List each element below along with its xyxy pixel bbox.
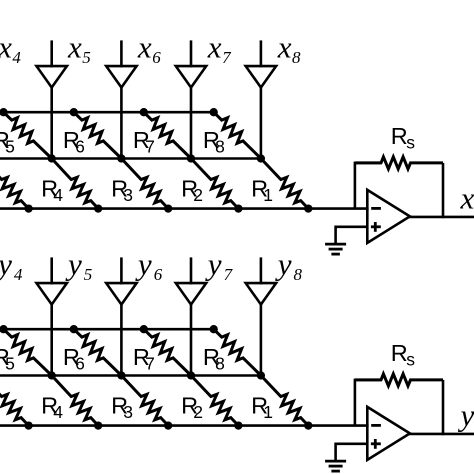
buffer amplifier for input x7 bbox=[176, 66, 206, 87]
svg-text:s: s bbox=[406, 350, 415, 370]
wire: upper bus (x-section) bbox=[0, 111, 214, 114]
svg-text:x: x bbox=[207, 30, 222, 65]
resistor R2 (x-section) bbox=[191, 159, 238, 209]
wire: buffer x5 output down to middle bus bbox=[50, 88, 53, 159]
buffer amplifier for input y8 bbox=[246, 283, 276, 304]
wire: buffer y5 output down to middle bus bbox=[50, 305, 53, 376]
wire: buffer y8 output down to middle bus bbox=[260, 305, 263, 376]
svg-text:2: 2 bbox=[193, 185, 203, 205]
svg-text:y: y bbox=[205, 247, 222, 282]
op-amp U-x minus sign bbox=[371, 207, 381, 210]
resistor (partially cropped at left edge, y-section) bbox=[0, 376, 29, 426]
wire: middle bus (x-section buffer output rail) bbox=[0, 157, 261, 160]
svg-text:7: 7 bbox=[224, 265, 234, 284]
svg-text:y: y bbox=[458, 397, 474, 432]
wire: middle bus (y-section buffer output rail) bbox=[0, 374, 261, 377]
svg-text:3: 3 bbox=[123, 402, 133, 422]
node: buffer y5 output junction bbox=[48, 371, 56, 379]
node: buffer y6 output junction bbox=[117, 371, 125, 379]
wire: input lead above buffer y5 bbox=[50, 257, 53, 284]
svg-text:x: x bbox=[67, 30, 82, 65]
ground symbol at U-y non-inverting input bbox=[325, 460, 346, 463]
buffer amplifier for input x6 bbox=[106, 66, 136, 87]
svg-text:7: 7 bbox=[145, 354, 155, 374]
svg-text:4: 4 bbox=[12, 48, 21, 67]
wire: input lead above buffer x6 bbox=[120, 40, 123, 67]
svg-text:5: 5 bbox=[82, 48, 91, 67]
svg-text:8: 8 bbox=[292, 48, 301, 67]
svg-text:1: 1 bbox=[263, 185, 273, 205]
node: buffer y7 output junction bbox=[187, 371, 195, 379]
svg-text:1: 1 bbox=[263, 402, 273, 422]
op-amp U-x bbox=[367, 190, 410, 243]
buffer amplifier for input y5 bbox=[37, 283, 67, 304]
wire: output of U-y bbox=[409, 433, 474, 436]
node: upper bus tap 3 (y-section) bbox=[140, 325, 148, 333]
resistor R8 (x-section) bbox=[214, 112, 261, 158]
ground symbol at U-x non-inverting input bbox=[325, 243, 346, 246]
resistor R6 (y-section) bbox=[74, 329, 122, 375]
node: buffer x5 output junction bbox=[48, 154, 56, 162]
wire: buffer x6 output down to middle bus bbox=[120, 88, 123, 159]
node: lower bus tap 2 (x-section) bbox=[94, 204, 102, 212]
wire: non-inverting input of U-x bbox=[336, 227, 368, 244]
buffer amplifier for input x5 bbox=[37, 66, 67, 87]
svg-text:x: x bbox=[137, 30, 152, 65]
resistor Rs (y-section feedback) bbox=[355, 374, 443, 386]
wire: lower bus to op-amp inverting input (y-section) bbox=[0, 424, 369, 427]
svg-text:y: y bbox=[0, 247, 12, 282]
node: lower bus tap 4 (y-section) bbox=[234, 421, 242, 429]
wire: feedback loop of U-x bbox=[355, 163, 381, 209]
node: upper bus tap 1 (y-section) bbox=[0, 325, 8, 333]
buffer amplifier for input y7 bbox=[176, 283, 206, 304]
svg-text:2: 2 bbox=[193, 402, 203, 422]
wire: feedback right leg down to output of U-y bbox=[442, 380, 445, 435]
node: upper bus tap 3 (x-section) bbox=[140, 108, 148, 116]
svg-text:y: y bbox=[275, 247, 292, 282]
node: lower bus tap 5 (x-section) bbox=[304, 204, 312, 212]
resistor R4 (x-section) bbox=[52, 159, 98, 209]
wire: input lead above buffer y7 bbox=[190, 257, 193, 284]
svg-text:3: 3 bbox=[123, 185, 133, 205]
svg-text:R: R bbox=[391, 340, 408, 366]
node: lower bus tap 4 (x-section) bbox=[234, 204, 242, 212]
resistor R5 (y-section) bbox=[4, 329, 52, 375]
resistor Rs (x-section feedback) bbox=[355, 157, 443, 169]
op-amp U-y minus sign bbox=[371, 424, 381, 427]
resistor R1 (y-section) bbox=[261, 376, 308, 426]
node: lower bus tap 5 (y-section) bbox=[304, 421, 312, 429]
wire: lower bus to op-amp inverting input (x-section) bbox=[0, 207, 369, 210]
node: lower bus tap 3 (y-section) bbox=[164, 421, 172, 429]
wire: input lead above buffer x7 bbox=[190, 40, 193, 67]
wire: feedback right leg down to output of U-x bbox=[442, 163, 445, 218]
svg-text:x: x bbox=[0, 30, 12, 65]
svg-text:8: 8 bbox=[215, 354, 225, 374]
svg-text:5: 5 bbox=[84, 265, 93, 284]
wire: input lead above buffer y8 bbox=[260, 257, 263, 284]
op-amp U-y bbox=[367, 407, 410, 460]
svg-text:4: 4 bbox=[53, 185, 63, 205]
node: buffer x8 output junction bbox=[257, 154, 265, 162]
resistor R4 (y-section) bbox=[52, 376, 98, 426]
node: lower bus tap 1 (y-section) bbox=[24, 421, 32, 429]
svg-text:6: 6 bbox=[154, 265, 163, 284]
op-amp U-y plus sign bbox=[371, 442, 381, 445]
svg-text:s: s bbox=[406, 133, 415, 153]
svg-text:x: x bbox=[460, 180, 474, 215]
resistor R6 (x-section) bbox=[74, 112, 122, 158]
wire: buffer x8 output down to middle bus bbox=[260, 88, 263, 159]
wire: input lead above buffer y6 bbox=[120, 257, 123, 284]
svg-text:5: 5 bbox=[5, 137, 15, 157]
node: buffer x7 output junction bbox=[187, 154, 195, 162]
resistor R7 (x-section) bbox=[144, 112, 191, 158]
svg-text:x: x bbox=[277, 30, 292, 65]
wire: buffer y6 output down to middle bus bbox=[120, 305, 123, 376]
wire: input lead above buffer x5 bbox=[50, 40, 53, 67]
svg-text:6: 6 bbox=[152, 48, 161, 67]
op-amp U-x plus sign bbox=[371, 225, 381, 228]
wire: buffer y7 output down to middle bus bbox=[190, 305, 193, 376]
resistor (partially cropped at left edge, x-section) bbox=[0, 159, 29, 209]
svg-text:8: 8 bbox=[294, 265, 303, 284]
resistor R5 (x-section) bbox=[4, 112, 52, 158]
node: upper bus tap 4 (x-section) bbox=[210, 108, 218, 116]
node: lower bus tap 3 (x-section) bbox=[164, 204, 172, 212]
buffer amplifier for input x8 bbox=[246, 66, 276, 87]
wire: feedback loop of U-y bbox=[355, 380, 381, 426]
node: buffer x6 output junction bbox=[117, 154, 125, 162]
svg-text:R: R bbox=[391, 123, 408, 149]
wire: input lead above buffer x8 bbox=[260, 40, 263, 67]
node: buffer y8 output junction bbox=[257, 371, 265, 379]
resistor R2 (y-section) bbox=[191, 376, 238, 426]
svg-text:7: 7 bbox=[222, 48, 232, 67]
buffer amplifier for input y6 bbox=[106, 283, 136, 304]
svg-text:4: 4 bbox=[53, 402, 63, 422]
resistor R8 (y-section) bbox=[214, 329, 261, 375]
resistor R3 (y-section) bbox=[121, 376, 168, 426]
wire: buffer x7 output down to middle bus bbox=[190, 88, 193, 159]
resistor R7 (y-section) bbox=[144, 329, 191, 375]
svg-text:7: 7 bbox=[145, 137, 155, 157]
svg-text:6: 6 bbox=[75, 137, 85, 157]
node: upper bus tap 2 (y-section) bbox=[70, 325, 78, 333]
svg-text:5: 5 bbox=[5, 354, 15, 374]
wire: output of U-x bbox=[409, 216, 474, 219]
node: upper bus tap 4 (y-section) bbox=[210, 325, 218, 333]
wire: non-inverting input of U-y bbox=[336, 444, 368, 461]
node: lower bus tap 1 (x-section) bbox=[24, 204, 32, 212]
node: lower bus tap 2 (y-section) bbox=[94, 421, 102, 429]
wire: upper bus (y-section) bbox=[0, 328, 214, 331]
resistor R1 (x-section) bbox=[261, 159, 308, 209]
node: upper bus tap 2 (x-section) bbox=[70, 108, 78, 116]
resistor R3 (x-section) bbox=[121, 159, 168, 209]
svg-text:4: 4 bbox=[14, 265, 23, 284]
node: upper bus tap 1 (x-section) bbox=[0, 108, 8, 116]
svg-text:y: y bbox=[65, 247, 82, 282]
svg-text:8: 8 bbox=[215, 137, 225, 157]
svg-text:y: y bbox=[135, 247, 152, 282]
svg-text:6: 6 bbox=[75, 354, 85, 374]
